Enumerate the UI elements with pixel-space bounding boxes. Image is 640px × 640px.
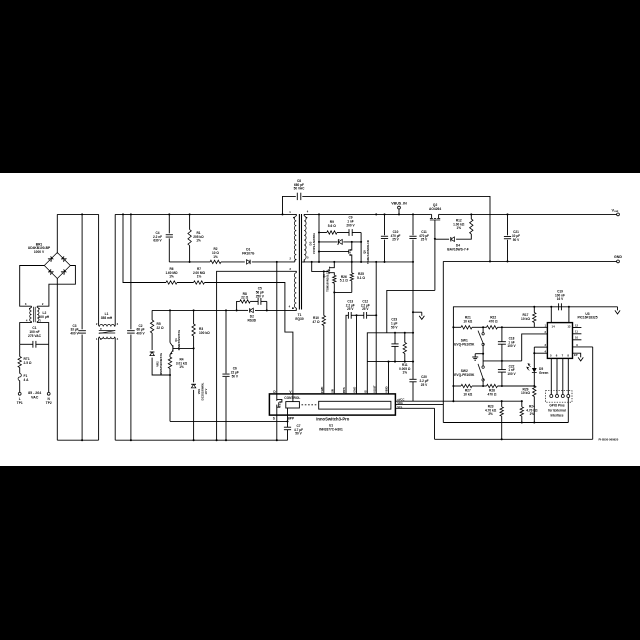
- wire MCU pin14 Vdd: [550, 307, 552, 323]
- terminal GND: [617, 260, 620, 263]
- wire MCU pin11: [573, 333, 582, 335]
- svg-text:630 V: 630 V: [153, 239, 162, 243]
- transformer T1 primary winding: [294, 216, 296, 260]
- transformer T1 core: [298, 214, 300, 310]
- svg-text:25 V: 25 V: [362, 307, 369, 311]
- svg-text:PIC16F18325: PIC16F18325: [577, 316, 597, 320]
- svg-text:BPS: BPS: [342, 387, 346, 393]
- wire R12 to D4: [456, 234, 471, 239]
- wire clamp row: [169, 261, 210, 263]
- resistor R29: [533, 377, 535, 386]
- svg-text:50 V: 50 V: [391, 325, 398, 329]
- svg-text:IS: IS: [364, 390, 368, 393]
- resistor R28: [487, 384, 498, 387]
- svg-text:1%: 1%: [403, 371, 408, 375]
- terminal TP2: [47, 392, 50, 395]
- resistor R25: [351, 262, 353, 273]
- capacitor C18: [501, 327, 503, 341]
- IC U1 right pins uVCC SDA SCL: [395, 400, 521, 402]
- wire C1 left down: [19, 344, 21, 356]
- svg-text:BPP: BPP: [287, 417, 295, 421]
- diode D4: [451, 237, 455, 241]
- svg-text:InnoSwitch3-Pro: InnoSwitch3-Pro: [316, 417, 349, 422]
- svg-text:16 V: 16 V: [557, 297, 564, 301]
- wire secondary return: [302, 261, 413, 263]
- ground bus primary right segment: [115, 439, 287, 441]
- svg-text:10 kΩ: 10 kΩ: [521, 391, 530, 395]
- svg-text:RS3D: RS3D: [247, 319, 256, 323]
- svg-text:250 V: 250 V: [256, 294, 265, 298]
- svg-text:TSM160N10LCR: TSM160N10LCR: [326, 270, 330, 292]
- svg-text:5.1 Ω: 5.1 Ω: [340, 279, 348, 283]
- IC U1 internal box large: [319, 401, 391, 409]
- svg-text:400 V: 400 V: [70, 332, 79, 336]
- wire C13 C12 row: [346, 315, 348, 394]
- resistor R10: [322, 316, 325, 326]
- wire T1 pin3 to ground: [217, 271, 282, 440]
- svg-text:GND: GND: [614, 255, 622, 259]
- svg-text:1%: 1%: [213, 255, 218, 259]
- svg-text:CONTROL: CONTROL: [284, 396, 300, 400]
- wire L2 pin1 down-right: [37, 323, 49, 345]
- wire R6-R7: [177, 282, 194, 284]
- svg-text:2.5 Ω: 2.5 Ω: [24, 361, 32, 365]
- wire Q1 emitter to R4: [169, 355, 171, 358]
- svg-text:10 kΩ: 10 kΩ: [463, 319, 472, 323]
- wire sec rail: [307, 213, 431, 215]
- LED D5: [533, 347, 535, 368]
- wire L2 pin4 down-left: [20, 323, 32, 345]
- mosfet Q3: [327, 269, 329, 273]
- svg-text:5.1 Ω: 5.1 Ω: [357, 276, 365, 280]
- capacitor C11: [412, 214, 414, 235]
- wire L1 right top to DC rail: [114, 326, 117, 327]
- svg-text:1%: 1%: [457, 226, 462, 230]
- bottom letterbox bar: [0, 466, 640, 640]
- wire MCU block bottom bus SDA: [443, 422, 568, 424]
- wire MCU pin3: [534, 346, 547, 348]
- svg-text:50 V: 50 V: [513, 238, 520, 242]
- capacitor C8: [296, 193, 298, 200]
- resistor R3: [193, 310, 195, 324]
- resistor R21: [453, 326, 461, 328]
- diode D3: [319, 241, 337, 243]
- svg-text:PI-8550-060920: PI-8550-060920: [599, 437, 619, 441]
- wire S pin to ground bus: [276, 415, 278, 440]
- wire MCU EP ground: [573, 353, 581, 357]
- svg-text:47 Ω: 47 Ω: [312, 320, 320, 324]
- resistor R23: [501, 401, 503, 407]
- wire FWD sense: [323, 271, 325, 315]
- svg-text:MMSZ5263BT3G: MMSZ5263BT3G: [159, 352, 163, 375]
- svg-text:AO4264: AO4264: [429, 207, 441, 211]
- wire drain to InnoSwitch: [276, 262, 278, 394]
- svg-text:13: 13: [567, 325, 571, 329]
- resistor R7: [194, 281, 205, 284]
- wire bottom row MCU: [453, 385, 461, 387]
- terminal Vout: [617, 213, 620, 216]
- wire bridge right to L2 pin2: [37, 266, 75, 307]
- svg-text:11: 11: [575, 330, 578, 334]
- ground arrow secondary: [413, 311, 422, 313]
- wire sense divider drop: [123, 214, 166, 282]
- svg-text:SCL: SCL: [397, 405, 403, 409]
- svg-text:25 V: 25 V: [392, 238, 399, 242]
- wire C1 right down to TP2: [48, 344, 50, 392]
- svg-text:100 V: 100 V: [507, 372, 516, 376]
- terminal TP1: [18, 392, 21, 395]
- svg-text:25 V: 25 V: [421, 238, 428, 242]
- DC rail top: [115, 213, 289, 215]
- IC U1 internal mosfet: [276, 394, 278, 401]
- mosfet Q5: [319, 251, 349, 253]
- wire bridge bottom to ground bus: [56, 279, 58, 441]
- IC U1 InnoSwitch3-Pro box: [269, 394, 395, 415]
- capacitor C23: [394, 333, 396, 344]
- wire VR2 to BPP node: [152, 358, 170, 375]
- capacitor C7: [284, 426, 291, 428]
- svg-text:10: 10: [575, 336, 579, 340]
- svg-text:FWD: FWD: [320, 387, 324, 393]
- svg-text:50 V: 50 V: [232, 374, 239, 378]
- wire Q2 gate down: [434, 220, 436, 290]
- resistor R6: [166, 281, 177, 284]
- wire SCL turn: [434, 408, 436, 439]
- svg-text:470 Ω: 470 Ω: [489, 319, 498, 323]
- wire R28 junction to R29: [533, 385, 535, 387]
- svg-text:TP2: TP2: [46, 401, 52, 405]
- svg-text:2%: 2%: [530, 412, 535, 416]
- GPIO pin circles: [550, 395, 553, 398]
- wire ground to logic: [442, 261, 444, 422]
- wire VR1 to ground bus: [193, 390, 195, 440]
- capacitor C5: [250, 300, 258, 302]
- wire MCU pin10: [573, 339, 582, 341]
- svg-text:V15PL2-M3/86A: V15PL2-M3/86A: [312, 233, 316, 254]
- wire mid row: [483, 360, 522, 362]
- svg-text:100 V: 100 V: [507, 344, 516, 348]
- wire gate-drive net: [387, 290, 435, 332]
- wire L1 bottom left to ground bus: [98, 338, 100, 440]
- resistor R12: [470, 214, 472, 219]
- wire VOUT pin drop: [375, 262, 377, 394]
- wire V pin into control: [292, 394, 294, 402]
- GPIO dotted box: [546, 391, 573, 403]
- resistor R9: [319, 232, 327, 234]
- snubber right rail: [360, 233, 362, 262]
- svg-text:22 Ω: 22 Ω: [241, 296, 249, 300]
- svg-text:1%: 1%: [179, 365, 184, 369]
- svg-text:1000 V: 1000 V: [34, 250, 45, 254]
- svg-text:GPIO Pins: GPIO Pins: [549, 403, 565, 407]
- svg-text:4 A: 4 A: [24, 378, 30, 382]
- wire SR pin drop: [333, 292, 335, 394]
- resistor R1: [189, 214, 191, 229]
- IC U3 PIC16F18325 box: [547, 323, 572, 359]
- svg-text:Green: Green: [539, 371, 548, 375]
- top letterbox bar: [0, 0, 640, 173]
- IC U1 dashed link: [302, 404, 318, 406]
- wire MCU pin12: [573, 327, 582, 329]
- svg-text:EQ30: EQ30: [295, 317, 304, 321]
- switch SW2: [482, 354, 484, 366]
- svg-text:TP1: TP1: [17, 401, 23, 405]
- common-mode choke L2: [30, 308, 32, 322]
- svg-text:12: 12: [575, 323, 579, 327]
- bridge rectifier BR1: [44, 253, 70, 279]
- svg-text:VBUS_IN: VBUS_IN: [391, 202, 407, 206]
- capacitor C13: [347, 312, 349, 319]
- svg-text:5.6 Ω: 5.6 Ω: [328, 224, 336, 228]
- svg-text:400 V: 400 V: [136, 332, 145, 336]
- capacitor C10: [384, 214, 386, 235]
- capacitor C6: [225, 310, 227, 373]
- svg-text:1%: 1%: [169, 275, 174, 279]
- fuse F1: [18, 374, 21, 381]
- svg-text:VOUT: VOUT: [372, 385, 376, 393]
- wire VCC top rail MCU: [453, 307, 534, 328]
- wire F1 to TP1: [19, 381, 21, 393]
- wire rail to L1: [98, 214, 100, 325]
- capacitor C8 branch: [283, 196, 296, 214]
- wire MCU pin4: [534, 352, 547, 354]
- svg-text:10 kΩ: 10 kΩ: [521, 317, 530, 321]
- wire AC input top bus: [57, 213, 98, 215]
- wire R27 to SW2: [472, 385, 487, 387]
- wire R7 to V-pin staircase: [205, 283, 293, 394]
- wire GND pin drop: [356, 315, 358, 394]
- capacitor C3: [81, 214, 83, 329]
- resistor R8: [237, 301, 240, 310]
- resistor R17: [533, 307, 535, 313]
- svg-text:100 µH: 100 µH: [39, 315, 50, 319]
- wire MCU pins 5-8 to GPIO: [550, 358, 552, 394]
- wire MCU pin13 Vss: [568, 307, 570, 323]
- svg-text:FR107G: FR107G: [242, 252, 255, 256]
- svg-text:VAC: VAC: [31, 395, 39, 399]
- svg-text:275 VAC: 275 VAC: [28, 334, 42, 338]
- wire R4 to BPP wire: [169, 369, 171, 422]
- wire output ground rail: [443, 260, 616, 262]
- capacitor C20: [421, 311, 423, 313]
- wire C20 column: [412, 262, 414, 379]
- wire R3 to base node: [193, 336, 195, 348]
- transformer T1 secondary winding: [304, 216, 306, 260]
- svg-text:470 Ω: 470 Ω: [488, 393, 497, 397]
- wire BPP feed: [170, 420, 288, 422]
- wire BPP pin down: [287, 415, 289, 427]
- svg-text:18 V: 18 V: [204, 388, 208, 394]
- svg-text:SR: SR: [331, 389, 335, 393]
- svg-text:2%: 2%: [488, 412, 493, 416]
- capacitor C9: [337, 232, 349, 234]
- wire pin8 through to SDA bus: [567, 398, 569, 423]
- ground arrow top right: [617, 307, 619, 311]
- capacitor C4: [168, 214, 170, 233]
- resistor R2: [210, 260, 221, 263]
- switch SW1: [482, 327, 484, 332]
- wire L1 right bottom to bus: [114, 337, 117, 338]
- wire MCU pin9 drop: [592, 347, 594, 439]
- svg-text:INN3377C-H301: INN3377C-H301: [319, 427, 343, 431]
- svg-text:EVQ-PE105K: EVQ-PE105K: [454, 342, 475, 346]
- svg-text:GND: GND: [353, 387, 357, 393]
- ground bars SW: [475, 353, 483, 355]
- capacitor C19: [558, 303, 560, 310]
- svg-text:TSM2A06N06LCR: TSM2A06N06LCR: [366, 240, 370, 264]
- wire IS sense row: [367, 333, 413, 394]
- svg-text:for External: for External: [548, 409, 566, 413]
- wire base node to VR1: [193, 348, 195, 382]
- svg-text:MMBT8299T3G: MMBT8299T3G: [177, 329, 181, 350]
- svg-text:14: 14: [552, 325, 556, 329]
- svg-text:SDA: SDA: [397, 401, 403, 405]
- wire R28 right: [498, 385, 535, 387]
- wire C8 to output ground: [302, 196, 490, 261]
- wire R10 to FWD pin: [323, 326, 325, 394]
- diode D1: [247, 260, 251, 264]
- diode D2: [235, 309, 248, 311]
- wire IS bottom row: [367, 361, 413, 363]
- resistor R26: [333, 275, 336, 283]
- wire RT1 to F1: [19, 368, 21, 374]
- IC U1 internal box small: [286, 402, 300, 408]
- resistor R22: [487, 326, 498, 329]
- wire R2 to D1: [221, 261, 245, 263]
- wire bridge left to L2 pin3: [20, 266, 45, 307]
- resistor R11: [404, 333, 406, 343]
- zener VR1: [191, 384, 195, 388]
- resistor R5: [151, 310, 153, 320]
- wire MCU pin9: [573, 346, 593, 348]
- wire R26 bottom: [334, 283, 352, 292]
- transformer T1 bias winding: [294, 273, 296, 308]
- svg-text:VB/D: VB/D: [385, 386, 389, 393]
- ground bus primary left segment: [57, 439, 98, 441]
- wire T1 pin5 to Q3 gate: [312, 262, 329, 272]
- svg-text:10 kΩ: 10 kΩ: [463, 393, 472, 397]
- svg-text:358 mH: 358 mH: [101, 316, 113, 320]
- svg-text:50 V: 50 V: [295, 432, 302, 436]
- svg-text:200 V: 200 V: [346, 223, 355, 227]
- svg-text:1%: 1%: [197, 275, 202, 279]
- wire rail after Q2 to Vout: [440, 213, 617, 215]
- wire VB pin stub: [388, 362, 390, 394]
- zener VR2: [150, 352, 154, 356]
- wire D1 to T1 pin2: [252, 261, 295, 263]
- capacitor C2: [130, 214, 132, 329]
- wire R21 to SW1: [472, 326, 487, 328]
- svg-text:uVCC: uVCC: [397, 398, 404, 402]
- svg-text:50 VAC: 50 VAC: [294, 187, 305, 191]
- wire R5 to VR2: [151, 333, 153, 350]
- svg-text:22 Ω: 22 Ω: [157, 326, 165, 330]
- wire bridge top: [56, 214, 58, 252]
- wire bottom ground long: [435, 438, 593, 440]
- wire MCU left rail: [452, 327, 454, 386]
- resistor R4: [168, 357, 171, 369]
- wire C5 right: [266, 301, 268, 310]
- wire R22 to MCU pin1: [498, 326, 548, 328]
- svg-text:BAV16WS-7-F: BAV16WS-7-F: [447, 247, 468, 251]
- svg-text:25 V: 25 V: [347, 307, 354, 311]
- svg-text:Interface: Interface: [550, 414, 563, 418]
- svg-text:100 kΩ: 100 kΩ: [199, 331, 210, 335]
- wire bias rectified node: [152, 309, 235, 311]
- svg-text:EVQ-PE105K: EVQ-PE105K: [454, 373, 475, 377]
- svg-text:1%: 1%: [196, 239, 201, 243]
- thermistor RT1: [18, 357, 21, 368]
- resistor R27: [461, 384, 472, 387]
- svg-text:25 V: 25 V: [421, 383, 428, 387]
- capacitor C22: [501, 361, 503, 370]
- capacitor C21: [507, 214, 509, 235]
- wire MCU pin2 link: [522, 334, 548, 361]
- wire D4 to Q2 gate: [435, 238, 449, 240]
- capacitor C12: [363, 312, 365, 319]
- wire Q1 base: [173, 347, 194, 349]
- snubber left rail: [318, 233, 320, 262]
- resistor R24: [521, 401, 523, 407]
- transistor Q1: [169, 310, 171, 342]
